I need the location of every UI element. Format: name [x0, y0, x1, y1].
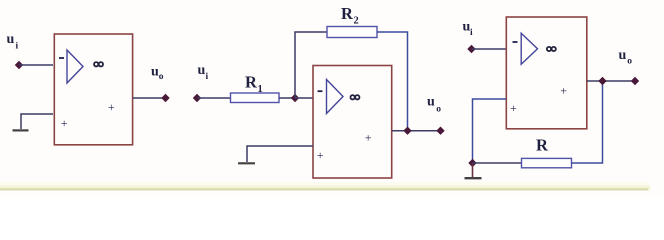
node: feedback junction at output (circuit 2): [404, 127, 411, 134]
op-amp U3 body: [506, 17, 587, 129]
node: input terminal u_i (circuit 1): [16, 62, 23, 69]
wire: R to output junction (circuit 3): [572, 81, 603, 163]
svg-text:o: o: [436, 104, 441, 114]
wire: op-amp output (circuit 3): [587, 80, 635, 82]
svg-text:u: u: [7, 32, 15, 47]
svg-text:+: +: [365, 131, 372, 145]
svg-text:i: i: [470, 28, 473, 38]
svg-text:+: +: [61, 116, 68, 130]
op-amp U1 inverting input marker -: [59, 57, 64, 59]
wire: R2 to output node (circuit 2): [377, 32, 408, 131]
wire: op-amp output (circuit 2): [392, 130, 441, 132]
ground (circuit 1): [13, 129, 29, 131]
ground (circuit 3): [465, 177, 482, 179]
resistor R: [522, 158, 572, 167]
node: feedback junction at output (circuit 3): [599, 78, 606, 85]
svg-text:R: R: [341, 4, 354, 23]
node: output terminal u_o (circuit 1): [162, 95, 169, 102]
svg-text:i: i: [206, 72, 209, 82]
svg-text:+: +: [510, 101, 517, 115]
svg-text:R: R: [245, 73, 258, 92]
node: feedback junction (circuit 3): [469, 160, 476, 167]
svg-text:u: u: [427, 94, 435, 109]
svg-text:R: R: [536, 135, 549, 154]
svg-text:1: 1: [258, 84, 263, 95]
svg-text:u: u: [151, 65, 159, 80]
op-amp U1 triangle: [67, 50, 83, 83]
svg-text:o: o: [159, 72, 164, 82]
wire: u_i to op-amp inverting input (circuit 3): [472, 48, 507, 50]
op-amp U2 gain label infinity: [350, 95, 359, 99]
wire: junction to resistor R (circuit 3): [473, 162, 523, 164]
resistor R1: [231, 93, 280, 103]
wire: R1 to summing node (circuit 2): [279, 97, 295, 99]
node: output terminal u_o (circuit 3): [632, 78, 639, 85]
node: input terminal u_i (circuit 3): [468, 46, 475, 53]
svg-text:u: u: [619, 48, 627, 63]
ground (circuit 2): [238, 162, 255, 164]
wire: junction to ground stub (circuit 3): [472, 163, 474, 177]
svg-text:+: +: [317, 148, 324, 162]
wire: op-amp output (circuit 1): [133, 97, 166, 99]
svg-text:o: o: [627, 57, 632, 67]
node: output terminal u_o (circuit 2): [437, 127, 444, 134]
svg-text:i: i: [16, 41, 19, 51]
op-amp U2 triangle: [327, 80, 344, 114]
wire: u_i to op-amp inverting input (circuit 1): [19, 64, 53, 66]
wire: noninverting input to ground (circuit 1): [21, 114, 53, 129]
resistor R2: [327, 27, 377, 38]
op-amp U3 gain label infinity: [547, 47, 556, 51]
op-amp U2 body: [313, 66, 392, 179]
wire: summing node to inverting input (circuit 2): [295, 97, 313, 99]
node: input terminal u_i (circuit 2): [194, 95, 201, 102]
op-amp U3 inverting input marker -: [513, 41, 518, 43]
op-amp U1 gain label infinity: [94, 62, 103, 66]
op-amp U1 body: [54, 34, 132, 145]
svg-text:2: 2: [354, 16, 359, 27]
svg-text:u: u: [198, 63, 206, 78]
svg-text:+: +: [108, 100, 115, 114]
op-amp U3 triangle: [521, 33, 537, 64]
wire: noninverting input to feedback node (circuit 3): [473, 99, 507, 163]
node: summing junction (circuit 2): [292, 95, 299, 102]
svg-text:+: +: [560, 83, 567, 97]
wire: u_i to R1 (circuit 2): [197, 97, 231, 99]
wire: summing node up to R2 (circuit 2): [295, 32, 327, 98]
op-amp U2 inverting input marker -: [318, 90, 323, 92]
wire: noninverting input to ground (circuit 2): [247, 146, 313, 162]
